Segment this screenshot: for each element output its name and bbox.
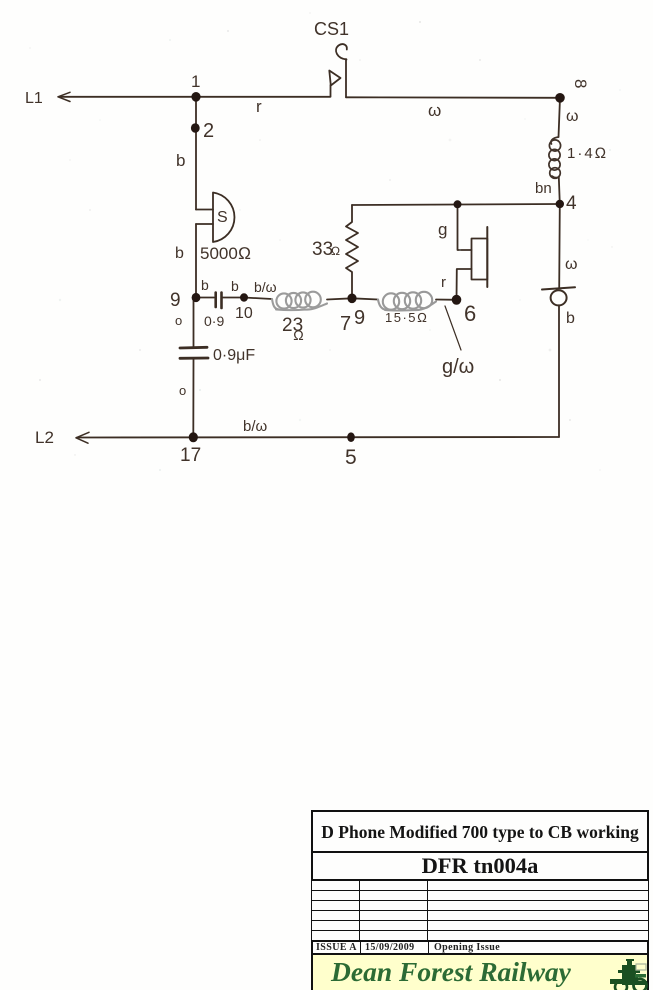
- junction node 4: [556, 200, 564, 208]
- svg-text:CS1: CS1: [314, 19, 349, 39]
- svg-text:ω: ω: [565, 256, 578, 273]
- transmitter body rectangle: [472, 239, 488, 280]
- svg-text:L2: L2: [35, 428, 54, 447]
- junction node 7/9: [347, 294, 356, 304]
- wire node9 down to capacitor C2: [193, 298, 195, 348]
- svg-text:o: o: [179, 383, 186, 398]
- svg-text:ω: ω: [428, 101, 441, 120]
- resistor 33ohm body: [346, 205, 358, 298]
- svg-text:7: 7: [340, 313, 351, 335]
- wire node9 to capacitor C1: [196, 297, 214, 299]
- svg-text:o: o: [175, 313, 182, 328]
- wire coil 1.4 to node 4: [559, 177, 560, 204]
- capacitor C2 plate top: [180, 346, 207, 350]
- inductor L2 1.4ohm coil: [549, 137, 561, 178]
- svg-text:g/ω: g/ω: [442, 356, 474, 378]
- junction node 9: [192, 293, 201, 302]
- transmitter top lead vertical: [458, 204, 472, 250]
- svg-text:9: 9: [354, 307, 365, 329]
- junction node 8: [555, 93, 565, 103]
- svg-text:g: g: [438, 220, 447, 239]
- svg-text:1: 1: [191, 72, 200, 91]
- capacitor C1 plate right: [220, 293, 223, 309]
- indicator circle: [551, 290, 567, 305]
- svg-text:b/ω: b/ω: [254, 279, 277, 295]
- wire capacitor C2 to node 17: [192, 359, 194, 437]
- svg-text:r: r: [256, 97, 262, 116]
- wire L1 top-left segment: [59, 96, 330, 98]
- junction node 1: [191, 92, 200, 102]
- svg-text:b: b: [566, 310, 575, 327]
- switch CS1 hook: [336, 44, 347, 59]
- svg-text:S: S: [217, 209, 228, 226]
- svg-text:Ω: Ω: [293, 327, 304, 343]
- svg-text:0·9μF: 0·9μF: [213, 347, 255, 364]
- svg-text:0·9: 0·9: [204, 313, 224, 329]
- svg-text:L1: L1: [25, 90, 43, 107]
- svg-text:b/ω: b/ω: [243, 418, 268, 435]
- wire receiver to node 9: [195, 224, 197, 298]
- junction node 5: [347, 432, 355, 442]
- svg-text:r: r: [441, 274, 446, 291]
- switch CS1 left contact: [330, 85, 332, 97]
- switch CS1 right contact wire: [345, 59, 347, 97]
- svg-text:2: 2: [203, 120, 214, 142]
- svg-text:15·5Ω: 15·5Ω: [385, 310, 429, 325]
- svg-text:5000Ω: 5000Ω: [200, 244, 251, 263]
- junction node 10: [240, 293, 248, 301]
- capacitor C2 plate bottom: [180, 357, 208, 360]
- svg-text:b: b: [201, 277, 209, 293]
- arrow L2 head: [76, 432, 89, 443]
- wire node1 down to node2 and receiver: [195, 97, 197, 210]
- junction node 17: [189, 432, 198, 442]
- transmitter bottom lead vertical: [457, 269, 472, 300]
- wire capacitor to node 10: [223, 297, 245, 299]
- svg-text:4: 4: [566, 193, 577, 214]
- junction node 2: [191, 123, 200, 133]
- receiver S bottom tap: [196, 223, 213, 225]
- inductor L3 23ohm coil: [272, 292, 327, 310]
- svg-text:Ω: Ω: [331, 244, 340, 258]
- junction middle rail: [454, 200, 462, 208]
- wire node8 down to coil 1.4: [559, 98, 561, 137]
- svg-text:6: 6: [464, 301, 476, 326]
- train logo: [610, 959, 650, 990]
- svg-text:b: b: [175, 245, 184, 262]
- svg-text:17: 17: [180, 445, 201, 466]
- leader line g/w: [445, 306, 461, 350]
- svg-text:33: 33: [312, 239, 333, 260]
- capacitor C1 plate left: [214, 293, 217, 308]
- transmitter electrode bar: [486, 227, 488, 287]
- svg-text:1·4Ω: 1·4Ω: [567, 145, 608, 162]
- wire node4 down to indicator: [558, 204, 561, 288]
- svg-text:b: b: [176, 151, 185, 170]
- svg-text:8: 8: [571, 79, 590, 88]
- wire top-right segment to node 8: [346, 96, 560, 99]
- inductor L4 15.5ohm coil: [378, 292, 436, 311]
- wire bottom rail: [77, 436, 559, 439]
- wire coil 15.5 to node 6: [436, 299, 457, 301]
- receiver S body: [213, 193, 234, 243]
- arrow L1 head: [58, 92, 70, 101]
- wire node7 to coil 15.5: [352, 298, 378, 299]
- wire indicator down to bottom corner: [558, 306, 560, 438]
- junction node 6: [452, 295, 462, 305]
- wire node10 to coil 23: [244, 298, 272, 300]
- wire coil 23 to node 7/9: [327, 298, 352, 299]
- svg-text:10: 10: [235, 305, 253, 322]
- indicator bar: [542, 287, 575, 289]
- receiver S top tap: [196, 209, 213, 211]
- wire middle top rail: [352, 204, 560, 205]
- svg-text:ω: ω: [566, 108, 579, 125]
- switch CS1 triangle: [329, 71, 340, 86]
- svg-text:9: 9: [170, 290, 181, 311]
- svg-text:bn: bn: [535, 180, 552, 197]
- svg-text:5: 5: [345, 446, 357, 469]
- svg-text:b: b: [231, 278, 239, 294]
- title block: [311, 810, 649, 990]
- scan speckle noise: [29, 12, 621, 471]
